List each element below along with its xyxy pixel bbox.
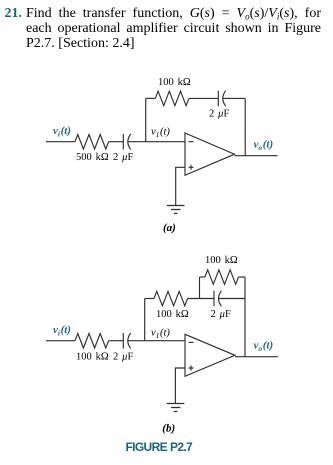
capacitor 2uF (feedback, a) plates — [217, 91, 219, 107]
wire: feedback left vertical (b) — [144, 299, 146, 341]
svg-text:2 μF: 2 μF — [113, 152, 133, 163]
minus sign at inverting input (b) — [189, 341, 194, 343]
wire: feedback right vertical down to output (b) — [244, 277, 246, 357]
svg-text:vi(t): vi(t) — [53, 125, 71, 139]
capacitor 2uF (input, a) plates — [122, 134, 124, 150]
svg-text:v1(t): v1(t) — [151, 327, 170, 340]
wire: feedback capacitor to right vertical (a) — [223, 97, 246, 99]
wire: input lead from vi(t) (b) — [46, 340, 75, 342]
svg-text:2 μF: 2 μF — [209, 109, 229, 120]
wire: inner feedback capacitor to right vertical (b) — [218, 298, 245, 300]
problem statement paragraph — [26, 6, 321, 51]
wire: inner feedback resistor to capacitor (b) — [188, 298, 214, 300]
wire: outer loop top horizontal right part (b) — [239, 276, 246, 278]
wire: feedback right vertical down to output (a) — [244, 98, 246, 155]
svg-text:(a): (a) — [163, 222, 176, 234]
plus sign at noninverting input (b) — [189, 366, 194, 371]
resistor 100 kOhm (input, b) — [75, 334, 109, 349]
op-amp U1 triangle (a) — [185, 133, 235, 175]
resistor 100 kOhm (inner feedback, b) — [154, 291, 188, 306]
resistor 100 kOhm (feedback, a) — [155, 91, 189, 106]
wire: feedback top horizontal left part (a) — [146, 97, 156, 99]
svg-text:100 kΩ: 100 kΩ — [205, 255, 238, 266]
svg-text:(b): (b) — [162, 422, 175, 434]
wire: outer loop left vertical (b) — [199, 277, 201, 299]
figure caption — [126, 440, 193, 454]
wire: inner feedback horizontal left part (b) — [145, 298, 154, 300]
ground (a) — [167, 206, 185, 214]
wire: plus input to ground (a) — [176, 167, 185, 205]
wire: input lead from vi(t) — [46, 141, 75, 143]
svg-text:100 kΩ: 100 kΩ — [158, 77, 191, 88]
capacitor 2uF (input, b) plates — [122, 333, 124, 349]
wire: output lead (a) — [235, 155, 278, 157]
wire: output lead (b) — [235, 356, 278, 358]
wire: plus input to ground (b) — [175, 368, 185, 404]
problem number 21 — [5, 6, 23, 22]
minus sign at inverting input (a) — [189, 141, 194, 143]
plus sign at noninverting input (a) — [189, 165, 194, 170]
wire: resistor to capacitor (a input) — [109, 141, 124, 143]
svg-text:2 μF: 2 μF — [211, 309, 231, 320]
wire: outer loop top horizontal left part (b) — [200, 276, 205, 278]
svg-text:vi(t): vi(t) — [53, 324, 71, 338]
resistor 500 kOhm (input, a) — [75, 135, 109, 150]
ground (b) — [167, 404, 185, 412]
svg-text:2 μF: 2 μF — [113, 352, 133, 363]
resistor 100 kOhm (outer feedback, b) — [205, 270, 239, 285]
svg-text:500 kΩ: 500 kΩ — [76, 152, 109, 163]
wire: feedback resistor to capacitor (a) — [189, 97, 218, 99]
wire: capacitor to op-amp minus input, node v1 (b) — [128, 340, 185, 342]
wire: feedback left vertical (a) — [145, 98, 147, 141]
svg-text:vo(t): vo(t) — [254, 339, 274, 353]
wire: resistor to capacitor (b input) — [109, 340, 124, 342]
svg-text:100 kΩ: 100 kΩ — [76, 352, 109, 363]
svg-text:100 kΩ: 100 kΩ — [156, 309, 189, 320]
svg-text:vo(t): vo(t) — [254, 138, 274, 152]
wire: capacitor to op-amp minus input, node v1 (a) — [128, 141, 185, 143]
op-amp U2 triangle (b) — [185, 334, 235, 376]
capacitor 2uF (inner feedback, b) plates — [213, 291, 215, 307]
svg-text:v1(t): v1(t) — [151, 126, 170, 139]
